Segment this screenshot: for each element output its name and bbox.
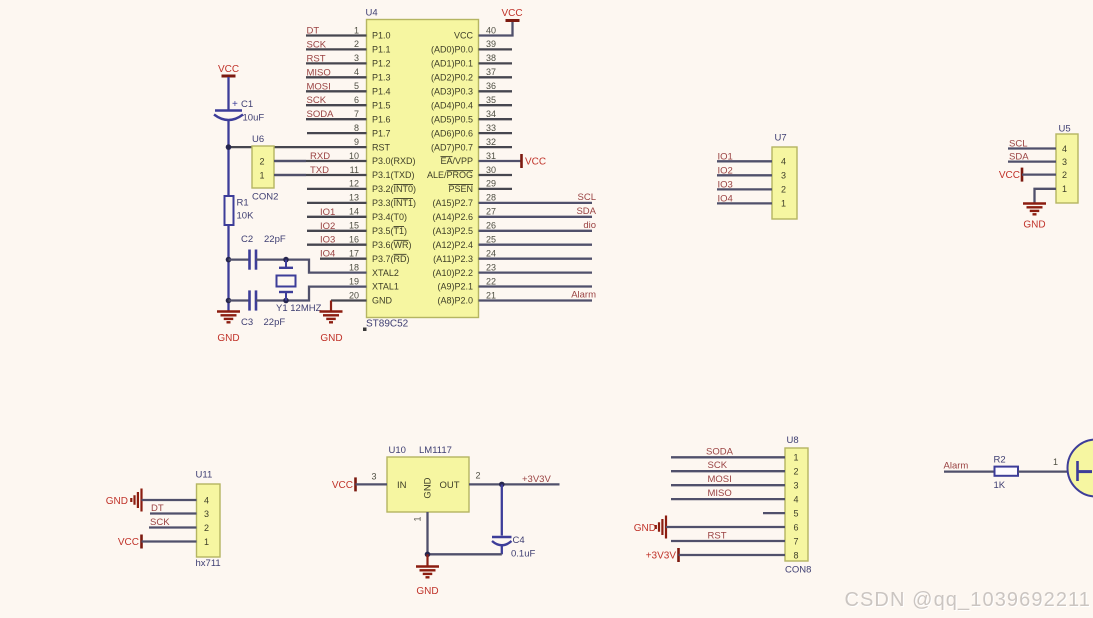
U11 pin 3 wire net DT bbox=[150, 503, 197, 514]
svg-text:SDA: SDA bbox=[576, 206, 596, 217]
U4 pin 9 RST wire to R1/C1 node bbox=[229, 137, 367, 147]
svg-text:EA/VPP: EA/VPP bbox=[440, 156, 473, 166]
svg-text:(A11)P2.3: (A11)P2.3 bbox=[433, 254, 473, 264]
svg-text:VCC: VCC bbox=[501, 8, 522, 19]
svg-text:4: 4 bbox=[793, 494, 798, 504]
node crystal bottom junction bbox=[283, 298, 289, 304]
svg-text:1: 1 bbox=[413, 516, 423, 521]
connector U8 CON8 body bbox=[785, 435, 811, 576]
svg-text:OUT: OUT bbox=[439, 480, 459, 491]
svg-text:GND: GND bbox=[320, 333, 342, 344]
svg-text:(AD3)P0.3: (AD3)P0.3 bbox=[431, 87, 473, 97]
svg-text:P3.2(INT0): P3.2(INT0) bbox=[372, 184, 416, 194]
svg-text:XTAL2: XTAL2 bbox=[372, 268, 399, 278]
svg-text:P1.0: P1.0 bbox=[372, 31, 391, 41]
svg-text:8: 8 bbox=[793, 550, 798, 560]
svg-text:1: 1 bbox=[354, 25, 359, 35]
svg-text:+3V3V: +3V3V bbox=[646, 551, 677, 562]
svg-text:3: 3 bbox=[781, 171, 786, 181]
svg-text:MISO: MISO bbox=[307, 67, 331, 78]
svg-text:SDA: SDA bbox=[1009, 152, 1029, 163]
svg-text:3: 3 bbox=[1062, 157, 1067, 167]
node C2 junction bbox=[226, 257, 232, 263]
svg-text:IO4: IO4 bbox=[320, 249, 335, 260]
power VCC (EA/VPP) bbox=[522, 154, 547, 168]
capacitor C2 22pF bbox=[241, 234, 286, 270]
U4 pin 27 wire net SDA bbox=[479, 206, 597, 217]
svg-text:(A10)P2.2: (A10)P2.2 bbox=[432, 268, 473, 278]
wire R2 to Q1 bbox=[1018, 457, 1077, 472]
ground (U10) bbox=[416, 567, 439, 598]
svg-text:10: 10 bbox=[349, 151, 359, 161]
regulator U10 LM1117 body bbox=[387, 445, 469, 512]
svg-text:26: 26 bbox=[486, 221, 496, 231]
svg-text:16: 16 bbox=[349, 235, 359, 245]
svg-text:0.1uF: 0.1uF bbox=[511, 549, 535, 560]
U4 pin 20 GND wire bbox=[331, 290, 367, 300]
svg-text:P1.2: P1.2 bbox=[372, 59, 391, 69]
svg-text:10uF: 10uF bbox=[243, 113, 265, 124]
svg-text:VCC: VCC bbox=[454, 31, 474, 41]
U4 pin 16 wire net IO3 bbox=[307, 235, 367, 246]
svg-text:(A14)P2.6: (A14)P2.6 bbox=[432, 212, 473, 222]
svg-text:39: 39 bbox=[486, 39, 496, 49]
U6 pin 2 wire RXD bbox=[274, 160, 306, 162]
svg-text:22pF: 22pF bbox=[264, 317, 286, 328]
power VCC (U5 pin 2) bbox=[999, 168, 1056, 182]
node RST junction bbox=[226, 144, 232, 150]
svg-text:RST: RST bbox=[708, 530, 727, 541]
svg-text:3: 3 bbox=[371, 472, 376, 482]
connector U11 hx711 body bbox=[196, 470, 221, 570]
svg-text:P1.7: P1.7 bbox=[372, 128, 391, 138]
U4 pin 40 VCC wire to VCC rail bbox=[479, 21, 513, 36]
svg-text:4: 4 bbox=[1062, 144, 1067, 154]
svg-text:(A13)P2.5: (A13)P2.5 bbox=[432, 226, 473, 236]
U10 GND pin 1 wire bbox=[413, 512, 428, 554]
svg-text:40: 40 bbox=[486, 25, 496, 35]
U4 pin 19 XTAL1 wire bbox=[286, 276, 367, 300]
svg-text:P3.5(T1): P3.5(T1) bbox=[372, 226, 407, 236]
svg-text:5: 5 bbox=[793, 508, 798, 518]
svg-text:IO2: IO2 bbox=[718, 165, 733, 176]
ground (U11 pin 4) bbox=[106, 489, 197, 512]
resistor R2 1K bbox=[994, 455, 1019, 492]
svg-text:(AD6)P0.6: (AD6)P0.6 bbox=[431, 128, 473, 138]
U7 pin 3 wire net IO2 bbox=[717, 165, 772, 176]
svg-text:U5: U5 bbox=[1059, 124, 1071, 135]
svg-text:1K: 1K bbox=[994, 480, 1006, 491]
svg-text:C2: C2 bbox=[241, 234, 253, 245]
svg-text:(AD5)P0.5: (AD5)P0.5 bbox=[431, 114, 473, 124]
svg-text:VCC: VCC bbox=[999, 170, 1020, 181]
svg-text:SCL: SCL bbox=[1009, 139, 1027, 150]
U4 pin 11 wire net TXD from U6 bbox=[274, 165, 367, 176]
svg-text:38: 38 bbox=[486, 53, 496, 63]
U8 pin 1 wire net SODA bbox=[671, 446, 785, 457]
U4 pin 35 stub bbox=[479, 95, 513, 105]
svg-text:VCC: VCC bbox=[118, 537, 139, 548]
svg-text:2: 2 bbox=[259, 156, 264, 166]
svg-text:SCK: SCK bbox=[150, 517, 170, 528]
U4 pin 37 stub bbox=[479, 67, 513, 77]
wire C3 to crystal bottom bbox=[256, 299, 286, 301]
U7 pin 4 wire net IO1 bbox=[717, 151, 772, 162]
svg-text:8: 8 bbox=[354, 123, 359, 133]
U4 pin 26 wire net dio bbox=[479, 220, 597, 231]
svg-text:3: 3 bbox=[204, 509, 209, 519]
svg-text:P3.7(RD): P3.7(RD) bbox=[372, 254, 410, 264]
svg-text:13: 13 bbox=[349, 193, 359, 203]
crystal Y1 12MHZ bbox=[276, 260, 322, 314]
svg-text:VCC: VCC bbox=[332, 480, 353, 491]
svg-text:ST89C52: ST89C52 bbox=[366, 319, 409, 330]
svg-text:RST: RST bbox=[372, 142, 391, 152]
svg-text:C4: C4 bbox=[513, 535, 525, 546]
svg-text:2: 2 bbox=[1062, 170, 1067, 180]
svg-text:IN: IN bbox=[397, 480, 407, 491]
U4 pin 7 wire net SODA bbox=[306, 109, 367, 120]
svg-text:22pF: 22pF bbox=[264, 234, 286, 245]
svg-text:24: 24 bbox=[486, 249, 496, 259]
svg-text:18: 18 bbox=[349, 262, 359, 272]
svg-text:(A15)P2.7: (A15)P2.7 bbox=[432, 198, 473, 208]
wire junction to ground symbol bbox=[426, 554, 428, 566]
U7 pin 1 wire net IO4 bbox=[717, 193, 772, 204]
svg-text:P1.5: P1.5 bbox=[372, 100, 391, 110]
svg-text:23: 23 bbox=[486, 262, 496, 272]
svg-text:6: 6 bbox=[793, 522, 798, 532]
svg-text:4: 4 bbox=[781, 157, 786, 167]
svg-text:U11: U11 bbox=[196, 470, 213, 481]
svg-text:U10: U10 bbox=[389, 445, 406, 456]
svg-text:SCK: SCK bbox=[307, 95, 327, 106]
svg-text:VCC: VCC bbox=[525, 157, 546, 168]
svg-text:(A12)P2.4: (A12)P2.4 bbox=[432, 240, 473, 250]
U4 pin 29 stub bbox=[479, 179, 513, 189]
svg-text:19: 19 bbox=[349, 276, 359, 286]
svg-text:LM1117: LM1117 bbox=[419, 445, 452, 456]
U5 pin 4 wire net SCL bbox=[1008, 139, 1056, 150]
svg-text:R1: R1 bbox=[237, 198, 249, 209]
U4 pin 28 wire net SCL bbox=[479, 192, 597, 203]
svg-text:IO2: IO2 bbox=[320, 221, 335, 232]
svg-text:21: 21 bbox=[486, 290, 496, 300]
svg-text:3: 3 bbox=[793, 481, 798, 491]
svg-text:11: 11 bbox=[350, 165, 359, 175]
U4 pin 4 wire net MISO bbox=[306, 67, 367, 78]
svg-text:GND: GND bbox=[372, 296, 393, 306]
svg-text:5: 5 bbox=[354, 81, 359, 91]
svg-text:CON2: CON2 bbox=[252, 192, 278, 203]
node ground junction bbox=[425, 552, 431, 558]
svg-text:GND: GND bbox=[634, 523, 656, 534]
svg-text:SODA: SODA bbox=[706, 446, 734, 457]
wire junction to C4 bbox=[501, 484, 503, 535]
wire pin20 to ground bbox=[330, 301, 332, 312]
svg-text:TXD: TXD bbox=[310, 165, 329, 176]
U4 pin 25 wire bbox=[479, 235, 593, 245]
svg-text:6: 6 bbox=[354, 95, 359, 105]
U8 pin 5 stub bbox=[763, 512, 785, 514]
U4 pin 12 wire bbox=[307, 179, 367, 189]
svg-text:7: 7 bbox=[354, 109, 359, 119]
svg-text:IO3: IO3 bbox=[718, 179, 733, 190]
svg-text:1: 1 bbox=[204, 537, 209, 547]
svg-text:+: + bbox=[232, 99, 238, 110]
svg-text:12: 12 bbox=[349, 179, 359, 189]
svg-text:1: 1 bbox=[259, 170, 264, 180]
U4 pin 31 EA/VPP wire bbox=[479, 151, 522, 161]
connector U7 body bbox=[772, 133, 797, 220]
svg-text:GND: GND bbox=[217, 333, 239, 344]
U4 pin 36 stub bbox=[479, 81, 513, 91]
U8 pin 7 wire net RST bbox=[671, 530, 785, 541]
svg-text:(AD7)P0.7: (AD7)P0.7 bbox=[431, 142, 473, 152]
svg-text:1: 1 bbox=[781, 199, 786, 209]
svg-text:Alarm: Alarm bbox=[944, 460, 969, 471]
connector U5 body bbox=[1056, 124, 1078, 204]
svg-text:C3: C3 bbox=[241, 317, 253, 328]
svg-text:(AD4)P0.4: (AD4)P0.4 bbox=[431, 100, 473, 110]
svg-text:GND: GND bbox=[106, 496, 128, 507]
svg-text:IO4: IO4 bbox=[718, 193, 733, 204]
svg-text:IO1: IO1 bbox=[718, 151, 733, 162]
U4 pin 33 stub bbox=[479, 123, 513, 133]
svg-text:SCL: SCL bbox=[578, 192, 596, 203]
svg-text:2: 2 bbox=[793, 467, 798, 477]
svg-text:MOSI: MOSI bbox=[307, 81, 331, 92]
ground (left rail) bbox=[217, 312, 240, 345]
U4 pin 22 wire bbox=[479, 276, 593, 286]
wire C2 to crystal top bbox=[256, 258, 286, 260]
U4 pin 32 stub bbox=[479, 137, 513, 147]
U8 pin 3 wire net MOSI bbox=[671, 474, 785, 485]
wire VCC to C1 bbox=[227, 77, 229, 110]
power VCC (left, above C1) bbox=[218, 64, 239, 76]
svg-text:IO3: IO3 bbox=[320, 235, 335, 246]
svg-text:RST: RST bbox=[307, 53, 326, 64]
power VCC (U10 IN pin 3) bbox=[332, 472, 387, 492]
svg-text:SODA: SODA bbox=[307, 109, 335, 120]
svg-text:SCK: SCK bbox=[708, 460, 728, 471]
resistor R1 10K bbox=[225, 196, 255, 225]
U4 pin 21 wire net Alarm bbox=[479, 290, 597, 301]
svg-text:P3.4(T0): P3.4(T0) bbox=[372, 212, 407, 222]
svg-text:(A8)P2.0: (A8)P2.0 bbox=[437, 296, 473, 306]
svg-text:C1: C1 bbox=[241, 99, 253, 110]
svg-text:4: 4 bbox=[204, 495, 209, 505]
svg-text:ALE/PROG: ALE/PROG bbox=[427, 170, 473, 180]
ground (U8 pin 6) bbox=[634, 516, 785, 539]
svg-text:30: 30 bbox=[486, 165, 496, 175]
U5 pin 1 wire to ground bbox=[1035, 189, 1057, 203]
svg-text:U4: U4 bbox=[366, 8, 378, 19]
ground (U4 pin 20) bbox=[320, 312, 343, 345]
U4 left pin names bbox=[372, 31, 416, 306]
U4 pin 1 wire net DT bbox=[306, 25, 367, 36]
svg-text:CON8: CON8 bbox=[785, 565, 811, 576]
svg-text:P1.3: P1.3 bbox=[372, 73, 391, 83]
svg-text:25: 25 bbox=[486, 235, 496, 245]
svg-text:GND: GND bbox=[423, 477, 434, 498]
U6 pin 1 wire TXD bbox=[274, 174, 306, 176]
U4 pin 3 wire net RST bbox=[306, 53, 367, 64]
wire C1 to RST node bbox=[227, 121, 229, 196]
node C3 junction bbox=[226, 298, 232, 304]
svg-text:32: 32 bbox=[486, 137, 496, 147]
svg-text:2: 2 bbox=[475, 471, 480, 481]
connector U6 CON2 body bbox=[252, 134, 278, 203]
svg-text:Alarm: Alarm bbox=[571, 290, 596, 301]
U8 pin 2 wire net SCK bbox=[671, 460, 785, 471]
svg-text:14: 14 bbox=[349, 207, 359, 217]
svg-text:35: 35 bbox=[486, 95, 496, 105]
capacitor C3 22pF bbox=[241, 290, 285, 328]
svg-text:GND: GND bbox=[416, 586, 438, 597]
U4 pin 15 wire net IO2 bbox=[307, 221, 367, 232]
svg-text:(AD1)P0.1: (AD1)P0.1 bbox=[431, 59, 473, 69]
U4 pin 10 wire net RXD from U6 bbox=[274, 151, 367, 162]
svg-text:15: 15 bbox=[349, 221, 359, 231]
svg-text:PSEN: PSEN bbox=[448, 184, 473, 194]
svg-text:17: 17 bbox=[349, 249, 359, 259]
svg-text:R2: R2 bbox=[994, 455, 1006, 466]
svg-text:DT: DT bbox=[151, 503, 164, 514]
svg-text:2: 2 bbox=[781, 185, 786, 195]
U5 pin 3 wire net SDA bbox=[1008, 152, 1056, 163]
U11 pin 2 wire net SCK bbox=[149, 517, 197, 528]
svg-text:IO1: IO1 bbox=[320, 207, 335, 218]
svg-text:34: 34 bbox=[486, 109, 496, 119]
U4 pin 14 wire net IO1 bbox=[307, 207, 367, 218]
svg-text:+3V3V: +3V3V bbox=[522, 474, 551, 485]
node +3V3V/C4 junction bbox=[499, 482, 505, 488]
svg-text:7: 7 bbox=[793, 536, 798, 546]
U4 pin 39 stub bbox=[479, 39, 513, 49]
svg-text:3: 3 bbox=[354, 53, 359, 63]
U4 pin 24 wire bbox=[479, 249, 593, 259]
U4 pin 38 stub bbox=[479, 53, 513, 63]
svg-text:20: 20 bbox=[349, 290, 359, 300]
power VCC (top) bbox=[501, 8, 522, 21]
wire R1 to GND rail bbox=[227, 225, 229, 311]
wire C4 to ground run bbox=[501, 546, 503, 554]
svg-text:P1.1: P1.1 bbox=[372, 45, 391, 55]
svg-text:RXD: RXD bbox=[310, 151, 330, 162]
svg-text:MOSI: MOSI bbox=[708, 474, 732, 485]
svg-text:MISO: MISO bbox=[708, 488, 732, 499]
svg-text:31: 31 bbox=[486, 151, 496, 161]
svg-text:VCC: VCC bbox=[218, 64, 239, 75]
U4 pin 30 stub bbox=[479, 165, 513, 175]
svg-text:P3.1(TXD): P3.1(TXD) bbox=[372, 170, 415, 180]
svg-text:P1.6: P1.6 bbox=[372, 114, 391, 124]
svg-text:(AD0)P0.0: (AD0)P0.0 bbox=[431, 45, 473, 55]
wire rail to C3 bbox=[229, 299, 250, 301]
capacitor C1 10uF (polarized) bbox=[214, 99, 264, 124]
svg-text:XTAL1: XTAL1 bbox=[372, 282, 399, 292]
svg-text:36: 36 bbox=[486, 81, 496, 91]
svg-text:37: 37 bbox=[486, 67, 496, 77]
svg-text:SCK: SCK bbox=[307, 39, 327, 50]
power VCC (U11 pin 1) bbox=[118, 535, 197, 549]
U4 pin 34 stub bbox=[479, 109, 513, 119]
U4 pin 18 XTAL2 wire bbox=[286, 260, 367, 273]
U4 pin 17 wire net IO4 bbox=[320, 249, 367, 260]
svg-text:33: 33 bbox=[486, 123, 496, 133]
svg-text:hx711: hx711 bbox=[196, 558, 221, 569]
power +3V3V (U8 pin 8) bbox=[646, 548, 785, 562]
svg-text:U8: U8 bbox=[787, 435, 799, 446]
svg-text:U7: U7 bbox=[775, 133, 787, 144]
svg-text:4: 4 bbox=[354, 67, 359, 77]
svg-text:(A9)P2.1: (A9)P2.1 bbox=[437, 282, 473, 292]
svg-text:10K: 10K bbox=[237, 211, 255, 222]
svg-text:U6: U6 bbox=[252, 134, 264, 145]
U4 right pin names bbox=[427, 31, 474, 306]
wire rail to C2 bbox=[229, 258, 250, 260]
svg-text:P3.0(RXD): P3.0(RXD) bbox=[372, 156, 416, 166]
U4 pin 6 wire net SCK bbox=[306, 95, 367, 106]
svg-text:22: 22 bbox=[486, 276, 496, 286]
svg-text:1: 1 bbox=[793, 453, 798, 463]
svg-text:Y1 12MHZ: Y1 12MHZ bbox=[276, 303, 322, 314]
transistor Q1 (edge of page) bbox=[1068, 440, 1093, 497]
svg-text:P3.3(INT1): P3.3(INT1) bbox=[372, 198, 416, 208]
svg-text:28: 28 bbox=[486, 193, 496, 203]
svg-text:DT: DT bbox=[307, 26, 320, 37]
svg-text:29: 29 bbox=[486, 179, 496, 189]
ground (U5) bbox=[1023, 204, 1046, 231]
U4 pin 2 wire net SCK bbox=[306, 39, 367, 50]
capacitor C4 0.1uF bbox=[492, 535, 535, 560]
U8 pin 4 wire net MISO bbox=[671, 488, 785, 499]
svg-text:2: 2 bbox=[354, 39, 359, 49]
svg-text:2: 2 bbox=[204, 523, 209, 533]
svg-text:9: 9 bbox=[354, 137, 359, 147]
svg-text:P1.4: P1.4 bbox=[372, 87, 391, 97]
U4 pin 23 wire bbox=[479, 262, 593, 272]
watermark bbox=[844, 589, 1091, 612]
wire Alarm to R2 bbox=[944, 470, 995, 472]
U4 pin 8 wire bbox=[307, 123, 367, 133]
svg-text:1: 1 bbox=[1062, 184, 1067, 194]
node crystal top junction bbox=[283, 257, 289, 263]
U7 pin 2 wire net IO3 bbox=[717, 179, 772, 190]
svg-text:27: 27 bbox=[486, 207, 496, 217]
svg-text:1: 1 bbox=[1053, 457, 1058, 467]
IC U4 ST89C52 body bbox=[363, 8, 479, 332]
svg-text:(AD2)P0.2: (AD2)P0.2 bbox=[431, 73, 473, 83]
svg-text:GND: GND bbox=[1023, 220, 1045, 231]
U10 OUT pin 2 wire net +3V3V bbox=[469, 471, 560, 486]
wire ground run bbox=[428, 553, 502, 555]
U4 pin 5 wire net MOSI bbox=[306, 81, 367, 92]
svg-text:P3.6(WR): P3.6(WR) bbox=[372, 240, 412, 250]
U4 pin 13 wire bbox=[307, 193, 367, 203]
svg-text:dio: dio bbox=[583, 220, 596, 231]
